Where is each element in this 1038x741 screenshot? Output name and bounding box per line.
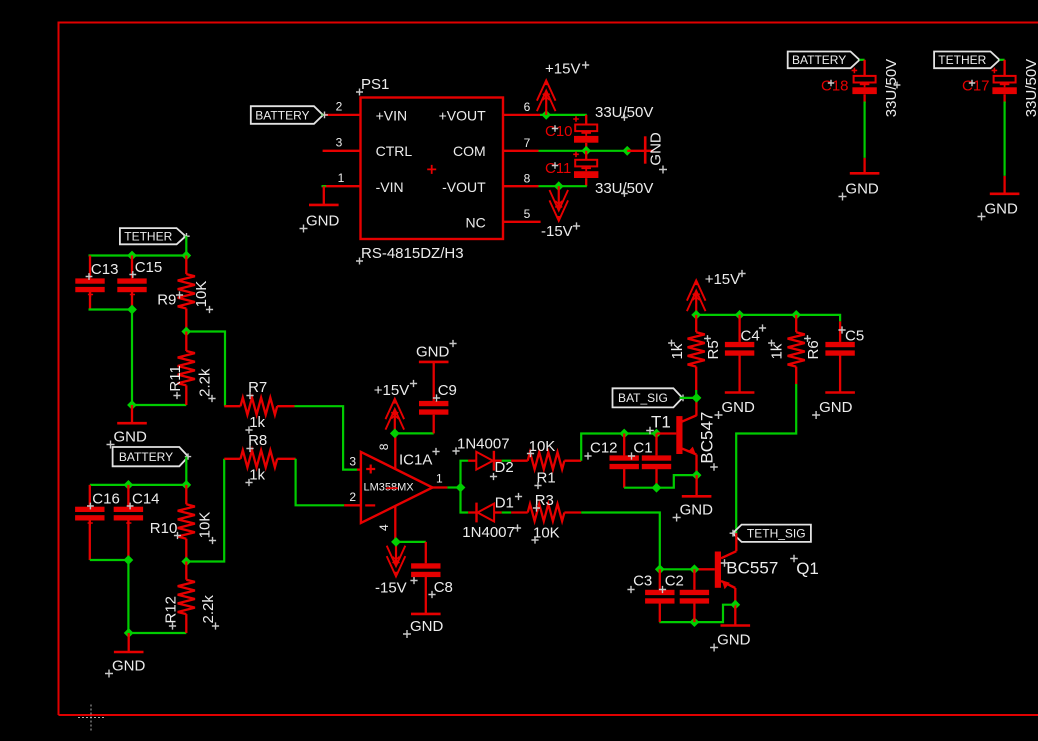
label D1: [495, 493, 522, 512]
value 10K of R3: [531, 525, 559, 544]
svg-text:BATTERY: BATTERY: [119, 450, 173, 464]
label R7: [246, 379, 267, 399]
junction battery R10: [181, 480, 191, 490]
svg-text:7: 7: [524, 136, 531, 150]
svg-text:BC547: BC547: [697, 412, 716, 464]
resistor R7 1k: [224, 398, 294, 415]
pin 8 opamp: [377, 433, 396, 469]
label C10: [545, 123, 573, 140]
ground GND below C5: [812, 393, 855, 420]
value 2.2k of R11: [197, 368, 216, 402]
svg-text:BC557: BC557: [726, 559, 778, 578]
flag BATTERY at C18: [788, 52, 860, 69]
svg-text:+VIN: +VIN: [376, 107, 408, 123]
wire gnd node to R11 bottom: [132, 404, 186, 406]
junction C14 top: [124, 480, 134, 490]
label C18: [821, 78, 849, 95]
svg-text:C4: C4: [741, 328, 760, 345]
pin 2 opamp: [344, 490, 361, 505]
svg-text:GND: GND: [819, 399, 853, 416]
svg-text:1N4007: 1N4007: [462, 524, 515, 541]
wire pin6 to C10: [540, 114, 587, 116]
resistor R5 1k: [688, 315, 705, 398]
label RS-4815DZ/H3: [356, 245, 464, 265]
junction C14 bottom: [124, 555, 134, 565]
value 33U/50V of C11: [595, 180, 653, 197]
svg-text:Q1: Q1: [796, 559, 819, 578]
capacitor C1: [642, 434, 671, 488]
pin 4 opamp: [377, 506, 396, 542]
pin 7 COM: [503, 136, 539, 151]
svg-text:C17: C17: [962, 78, 990, 95]
junction R9-R11: [181, 327, 191, 337]
wire pin8 to C11 bottom: [539, 185, 587, 187]
wire R6 to TETH_SIG: [736, 384, 796, 533]
svg-text:1N4007: 1N4007: [457, 436, 510, 453]
label R10: [150, 520, 181, 539]
svg-text:10K: 10K: [197, 512, 214, 539]
wire battery tip down: [185, 453, 191, 459]
label 1N4007 of D2: [452, 436, 509, 455]
ground GND above C9: [416, 340, 457, 362]
power supply PS1 RS-4815DZ/H3: [361, 98, 504, 240]
wire caps bottom bus left: [89, 308, 133, 310]
wire TETHER tip down: [185, 235, 187, 237]
svg-text:C13: C13: [91, 261, 119, 278]
svg-text:C9: C9: [438, 382, 457, 399]
ground GND left upper: [107, 405, 148, 449]
junction C2 top Q1 base: [690, 564, 700, 574]
svg-text:-15V: -15V: [375, 580, 407, 597]
junction pin6: [541, 110, 551, 120]
pin 5 NC: [503, 207, 541, 222]
label C3: [627, 573, 652, 594]
capacitor C11: [573, 151, 598, 186]
op-amp IC1A LM358MX: [361, 452, 433, 523]
svg-text:33U/50V: 33U/50V: [1023, 59, 1038, 117]
svg-text:BATTERY: BATTERY: [255, 108, 309, 122]
wire caps bottom bus left lower: [90, 559, 129, 561]
label Q1: [790, 555, 819, 578]
supply +15V at R5: [687, 270, 746, 315]
junction opamp pin8: [390, 429, 400, 439]
svg-text:GND: GND: [306, 213, 340, 230]
junction pin8: [554, 181, 564, 191]
junction COM gnd tap: [622, 146, 632, 156]
value 1k of R8: [245, 467, 265, 487]
ground GND below T1: [673, 475, 714, 521]
junction BAT_SIG: [692, 393, 702, 403]
label C12: [584, 440, 617, 460]
svg-text:8: 8: [524, 171, 531, 185]
junction +15V R5: [691, 310, 701, 320]
supply -15V at opamp: [375, 542, 418, 597]
junction lower gnd node: [124, 628, 134, 638]
svg-text:C16: C16: [92, 491, 120, 508]
svg-text:TETHER: TETHER: [124, 230, 172, 244]
flag TETH_SIG: [733, 525, 811, 542]
svg-text:C14: C14: [132, 491, 160, 508]
svg-text:RS-4815DZ/H3: RS-4815DZ/H3: [361, 245, 464, 262]
wire caps bottom bus to T1 emitter gnd: [624, 475, 697, 488]
capacitor C8: [411, 542, 440, 614]
label C8: [428, 579, 452, 598]
wire C3 C2 top bus: [660, 568, 695, 570]
label C5: [838, 326, 864, 344]
wire battery top bus: [90, 484, 187, 486]
label C4: [741, 324, 767, 344]
svg-text:D1: D1: [495, 495, 514, 512]
value 10K of R9: [193, 281, 213, 313]
ground GND below C18: [839, 158, 880, 201]
svg-text:NC: NC: [465, 215, 485, 231]
pin 6 +VOUT: [503, 100, 540, 115]
junction T1 emitter: [692, 470, 702, 480]
capacitor C12: [610, 434, 639, 488]
value 1k of R5: [668, 340, 686, 360]
svg-text:GND: GND: [416, 343, 450, 360]
svg-text:C12: C12: [590, 440, 618, 457]
svg-text:R3: R3: [535, 492, 554, 509]
supply -15V at PS1: [541, 186, 580, 240]
wire output to D1: [461, 488, 469, 513]
label C9: [433, 382, 457, 402]
svg-text:5: 5: [524, 207, 531, 221]
flag BAT_SIG: [613, 388, 683, 407]
junction C10-C11: [581, 146, 591, 156]
ground GND below C4: [715, 393, 756, 420]
junction C3 top: [655, 564, 665, 574]
wire pin7 COM to ground: [539, 150, 628, 152]
svg-text:GND: GND: [717, 632, 751, 649]
value 2.2k of R12: [200, 595, 219, 630]
svg-text:4: 4: [377, 524, 391, 531]
label C14: [127, 491, 160, 510]
capacitor C13: [75, 256, 104, 310]
svg-text:2: 2: [336, 100, 343, 114]
label R6: [804, 335, 822, 359]
wire R10R12 to R8: [186, 459, 224, 562]
wire R1 to C12 bus: [581, 434, 657, 461]
svg-text:+15V: +15V: [545, 61, 580, 78]
svg-text:C10: C10: [545, 123, 573, 140]
value 33U/50V of C10: [595, 104, 653, 121]
label PS1: [356, 76, 389, 96]
svg-text:CTRL: CTRL: [376, 143, 413, 159]
svg-text:GND: GND: [114, 429, 148, 446]
resistor R3 10K: [511, 504, 581, 521]
wire output to D2: [461, 461, 469, 488]
svg-text:PS1: PS1: [361, 76, 389, 93]
svg-text:1: 1: [436, 472, 443, 486]
svg-text:2.2k: 2.2k: [197, 368, 214, 397]
wire R9R11 to R7: [186, 332, 225, 407]
svg-text:C5: C5: [845, 328, 864, 345]
svg-text:COM: COM: [453, 143, 486, 159]
svg-text:GND: GND: [648, 132, 665, 166]
svg-text:1k: 1k: [249, 467, 265, 484]
svg-text:C8: C8: [434, 579, 453, 596]
junction C1 bottom: [652, 483, 662, 493]
svg-text:+15V: +15V: [705, 271, 740, 288]
resistor R8 1k: [224, 450, 295, 467]
svg-text:GND: GND: [680, 502, 714, 519]
pin 3 CTRL: [323, 135, 361, 150]
svg-text:R5: R5: [705, 340, 722, 359]
svg-text:3: 3: [349, 454, 356, 468]
label T1: [646, 413, 671, 435]
svg-text:1k: 1k: [249, 414, 265, 431]
capacitor C3: [645, 569, 674, 622]
wire C17 top nub: [1000, 59, 1005, 61]
junction R6 top: [791, 310, 801, 320]
capacitor C18: [852, 60, 877, 103]
svg-text:10K: 10K: [193, 281, 210, 308]
diode D1 1N4007: [468, 503, 502, 523]
resistor R12 2.2k: [178, 562, 195, 634]
ground GND below Q1: [710, 605, 751, 652]
label R12: [163, 596, 180, 630]
value 10K of R10: [197, 512, 217, 544]
resistor R10 10K: [178, 485, 195, 562]
value 1k of R7: [245, 414, 265, 434]
ground GND at PS1 pin 1: [300, 186, 340, 232]
capacitor C16: [75, 485, 104, 560]
wire left vertical to lower gnd: [127, 560, 129, 633]
ground GND below C8: [403, 614, 444, 638]
svg-text:GND: GND: [845, 181, 879, 198]
svg-text:C15: C15: [135, 259, 163, 276]
junction C12 top: [619, 429, 629, 439]
flag TETHER at C17: [934, 52, 999, 69]
wire R7 to opamp pin3: [295, 406, 358, 469]
label R3: [533, 492, 554, 512]
svg-text:R9: R9: [157, 292, 176, 309]
label C11: [545, 160, 571, 177]
wire output to junction: [447, 486, 460, 488]
svg-text:+VOUT: +VOUT: [439, 107, 487, 123]
junction C2 bottom: [690, 617, 700, 627]
svg-text:BAT_SIG: BAT_SIG: [618, 391, 668, 405]
wire C18 top nub: [860, 59, 865, 61]
svg-text:GND: GND: [410, 618, 444, 635]
junction tether R9: [181, 251, 191, 261]
flag BATTERY left: [113, 447, 189, 466]
svg-text:R6: R6: [805, 340, 822, 359]
supply +15V at opamp: [374, 380, 417, 434]
svg-text:C18: C18: [821, 78, 849, 95]
value 33U/50V of C17: [1023, 59, 1038, 117]
capacitor C4: [725, 315, 754, 393]
svg-text:GND: GND: [722, 399, 756, 416]
wire C17 to ground: [1003, 102, 1005, 176]
wire Q1 emitter to caps bottom bus: [659, 605, 735, 622]
diode D2 1N4007: [468, 451, 502, 471]
wire D1 to R3: [502, 511, 512, 513]
junction left gnd node: [127, 400, 137, 410]
label C17: [962, 78, 990, 95]
junction C1 top: [652, 429, 662, 439]
label C13: [86, 261, 119, 280]
svg-text:8: 8: [377, 443, 391, 450]
label R11: [167, 365, 184, 399]
junction C15 bottom: [127, 305, 137, 315]
value 33U/50V of C18: [883, 59, 901, 117]
label C1: [628, 440, 653, 460]
svg-text:10K: 10K: [533, 525, 560, 542]
value 1k of R6: [768, 340, 786, 360]
transistor Q1 BC557: [696, 533, 737, 605]
junction R10-R12: [181, 557, 191, 567]
flag BATTERY at PS1 pin 2: [251, 106, 323, 124]
label C15: [129, 259, 162, 278]
svg-text:R12: R12: [163, 596, 180, 624]
svg-text:C1: C1: [633, 440, 652, 457]
label R1: [534, 470, 555, 490]
junction C15 top: [127, 251, 137, 261]
label C2: [659, 573, 684, 594]
label C16: [87, 491, 120, 510]
svg-text:2: 2: [349, 490, 356, 504]
ground GND below C17: [978, 176, 1020, 221]
wire tether top bus: [89, 254, 187, 256]
svg-text:R11: R11: [167, 365, 184, 391]
svg-text:3: 3: [336, 135, 343, 149]
value 10K of R1: [527, 438, 555, 457]
capacitor C5: [825, 321, 854, 392]
supply +15V at PS1: [537, 61, 589, 115]
svg-text:2.2k: 2.2k: [200, 595, 217, 624]
svg-text:IC1A: IC1A: [399, 452, 432, 469]
capacitor C17: [992, 60, 1017, 103]
label IC1A: [399, 448, 440, 469]
svg-text:C11: C11: [545, 160, 571, 177]
label D2: [490, 459, 514, 480]
resistor R6 1k: [788, 315, 805, 384]
svg-text:C2: C2: [665, 573, 684, 590]
label 1N4007 of D1: [462, 524, 521, 541]
svg-text:T1: T1: [651, 413, 671, 432]
junction Q1 emitter: [730, 600, 740, 610]
svg-text:+15V: +15V: [374, 382, 409, 399]
svg-text:-VOUT: -VOUT: [442, 179, 486, 195]
svg-text:6: 6: [524, 100, 531, 114]
junction opamp pin4: [391, 537, 401, 547]
resistor R11 2.2k: [178, 332, 195, 406]
resistor R1 10K: [511, 452, 581, 469]
capacitor C15: [117, 256, 146, 310]
svg-text:1: 1: [338, 171, 345, 185]
capacitor C9: [419, 363, 448, 433]
label R5: [704, 335, 722, 359]
wire BATTERY nub: [321, 114, 325, 116]
svg-text:GND: GND: [112, 658, 146, 675]
frame origin cross: [78, 705, 104, 731]
capacitor C14: [114, 485, 143, 560]
wire +15V bus: [696, 315, 840, 322]
svg-text:TETHER: TETHER: [938, 53, 986, 67]
wire pin4 to C8: [396, 541, 426, 543]
svg-text:GND: GND: [985, 201, 1019, 218]
svg-text:BATTERY: BATTERY: [792, 53, 846, 67]
pin 8 -VOUT: [503, 171, 539, 186]
junction opamp output: [456, 483, 466, 493]
wire R3 to Q1 base bus: [581, 513, 660, 570]
wire BAT_SIG to collector: [680, 395, 687, 402]
wire R8 to opamp pin2: [296, 459, 345, 506]
wire gnd node to R12 bottom: [129, 632, 187, 634]
value BC547 of T1: [697, 412, 718, 471]
transistor T1 BC547: [657, 398, 697, 475]
junction C4 top: [735, 310, 745, 320]
wire pin8 to C9: [395, 432, 434, 434]
pin 3 opamp: [349, 454, 361, 469]
ground GND right of PS1: [627, 132, 667, 173]
svg-text:-VIN: -VIN: [376, 179, 404, 195]
svg-text:-15V: -15V: [541, 223, 573, 240]
svg-text:C3: C3: [633, 573, 652, 590]
capacitor C2: [680, 569, 709, 622]
pin 1 opamp output: [433, 472, 448, 488]
label R8: [246, 432, 267, 452]
label R9: [157, 291, 183, 308]
flag TETHER left: [120, 228, 186, 244]
ground GND left lower: [105, 633, 146, 678]
svg-text:R7: R7: [248, 379, 267, 396]
capacitor C10: [573, 115, 598, 151]
svg-text:TETH_SIG: TETH_SIG: [747, 527, 806, 541]
wire C18 to ground: [863, 102, 865, 158]
pin 1 -VIN: [323, 171, 361, 186]
svg-text:R1: R1: [537, 470, 556, 487]
svg-text:R8: R8: [248, 432, 267, 449]
value BC557 of Q1: [721, 559, 779, 578]
wire D2 to R1: [502, 460, 512, 462]
resistor R9 10K: [178, 256, 195, 332]
svg-text:R10: R10: [150, 520, 178, 537]
pin 2 +VIN: [323, 100, 361, 115]
wire left vertical to gnd node: [131, 310, 133, 406]
svg-text:10K: 10K: [529, 438, 556, 455]
